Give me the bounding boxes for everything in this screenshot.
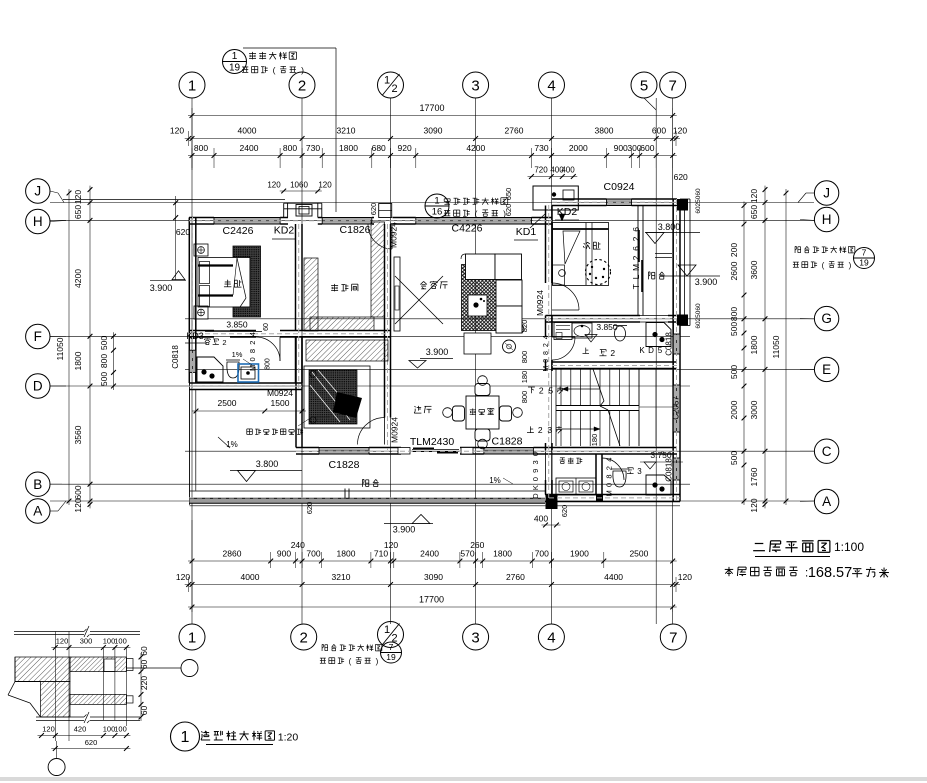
- svg-text:600: 600: [640, 143, 654, 153]
- svg-text:J: J: [34, 184, 41, 199]
- svg-text:120: 120: [42, 725, 55, 734]
- svg-text:400: 400: [561, 166, 575, 175]
- svg-text:3: 3: [547, 425, 552, 435]
- svg-text:5: 5: [658, 346, 663, 355]
- svg-text:60: 60: [695, 206, 702, 214]
- svg-text:2: 2: [298, 77, 306, 94]
- svg-text:KD2: KD2: [274, 225, 295, 237]
- svg-text:4: 4: [547, 629, 555, 646]
- svg-text:C0818: C0818: [665, 332, 674, 356]
- svg-text:1760: 1760: [749, 467, 759, 486]
- svg-text:900: 900: [277, 549, 291, 559]
- svg-text:2500: 2500: [629, 549, 648, 559]
- svg-text:2: 2: [539, 386, 544, 396]
- svg-text:180: 180: [520, 371, 529, 384]
- svg-text:2: 2: [391, 83, 397, 95]
- svg-text:3090: 3090: [424, 572, 443, 582]
- svg-text:120: 120: [176, 572, 190, 582]
- svg-text:M: M: [631, 264, 641, 271]
- svg-text:1800: 1800: [337, 549, 356, 559]
- svg-text:3.900: 3.900: [150, 283, 173, 293]
- svg-text:1800: 1800: [493, 549, 512, 559]
- svg-text:620: 620: [305, 502, 314, 515]
- svg-text:E: E: [822, 362, 831, 377]
- svg-text:3210: 3210: [337, 126, 356, 136]
- svg-text:300: 300: [80, 637, 93, 646]
- svg-text:D: D: [33, 379, 43, 394]
- svg-text:): ): [849, 261, 852, 270]
- svg-text:D: D: [531, 493, 540, 499]
- svg-text:H: H: [822, 212, 832, 227]
- svg-text:710: 710: [374, 549, 388, 559]
- svg-text:): ): [301, 65, 304, 75]
- svg-text:C1828: C1828: [492, 436, 523, 448]
- svg-text:19: 19: [386, 652, 396, 662]
- svg-text:): ): [503, 209, 506, 219]
- svg-text:2: 2: [610, 348, 615, 358]
- svg-text:3: 3: [471, 629, 479, 646]
- svg-text:1500: 1500: [271, 398, 290, 408]
- svg-text:570: 570: [460, 549, 474, 559]
- svg-text:250: 250: [695, 310, 702, 321]
- svg-text:120: 120: [267, 181, 281, 190]
- svg-text:11050: 11050: [771, 335, 781, 358]
- svg-text:2400: 2400: [420, 549, 439, 559]
- svg-text:260: 260: [470, 540, 484, 550]
- svg-text:800: 800: [729, 307, 739, 321]
- svg-text:1: 1: [188, 629, 196, 646]
- svg-text:0: 0: [604, 483, 613, 487]
- svg-text:240: 240: [291, 540, 305, 550]
- svg-text:620: 620: [176, 227, 190, 237]
- svg-text:1900: 1900: [570, 549, 589, 559]
- svg-text:3.800: 3.800: [256, 459, 279, 469]
- svg-text:420: 420: [74, 725, 87, 734]
- svg-text:3.850: 3.850: [596, 322, 618, 332]
- svg-text:7: 7: [669, 77, 677, 94]
- svg-text:700: 700: [535, 549, 549, 559]
- svg-text:2760: 2760: [506, 572, 525, 582]
- svg-text:17700: 17700: [419, 103, 444, 113]
- svg-text:400: 400: [534, 514, 548, 524]
- svg-text:2: 2: [538, 425, 543, 435]
- svg-text:(: (: [822, 261, 825, 270]
- svg-text:8: 8: [248, 349, 257, 353]
- svg-text:1: 1: [384, 75, 390, 87]
- svg-text:500: 500: [729, 451, 739, 465]
- svg-text:168.57: 168.57: [808, 565, 852, 581]
- svg-text:60: 60: [139, 646, 149, 656]
- svg-text:): ): [376, 657, 379, 666]
- svg-text:(: (: [349, 657, 352, 666]
- svg-text:4200: 4200: [73, 269, 83, 288]
- svg-text:M: M: [604, 490, 613, 496]
- svg-text:2: 2: [300, 629, 308, 646]
- svg-text:120: 120: [678, 572, 692, 582]
- svg-text:0: 0: [531, 477, 540, 481]
- svg-text:C1826: C1826: [340, 224, 371, 236]
- svg-text:M0924: M0924: [267, 388, 293, 398]
- svg-text:M: M: [248, 365, 257, 371]
- svg-text:60: 60: [695, 303, 702, 311]
- svg-text:2860: 2860: [223, 549, 242, 559]
- svg-text:500: 500: [99, 336, 109, 350]
- svg-text:17700: 17700: [419, 595, 444, 605]
- svg-text:2: 2: [543, 343, 550, 347]
- svg-text:2600: 2600: [729, 261, 739, 280]
- svg-text:120: 120: [318, 181, 332, 190]
- svg-text:3.850: 3.850: [226, 320, 248, 330]
- svg-text:3: 3: [471, 77, 479, 94]
- svg-text:120: 120: [170, 126, 184, 136]
- svg-text:0: 0: [531, 452, 540, 456]
- svg-text:7: 7: [389, 642, 394, 652]
- svg-text:19: 19: [859, 258, 869, 268]
- svg-text:800: 800: [99, 354, 109, 368]
- svg-text:650: 650: [749, 205, 759, 219]
- svg-text:A: A: [33, 504, 42, 519]
- svg-text:1: 1: [188, 77, 196, 94]
- svg-text:K: K: [639, 346, 645, 355]
- svg-text:220: 220: [139, 676, 149, 690]
- svg-text:730: 730: [306, 143, 320, 153]
- svg-text:2: 2: [604, 466, 613, 470]
- svg-text:4: 4: [547, 77, 555, 94]
- svg-text:6: 6: [631, 246, 641, 251]
- svg-text:720: 720: [534, 166, 548, 175]
- svg-text:100: 100: [114, 637, 127, 646]
- svg-text:M: M: [543, 366, 550, 372]
- svg-text:7: 7: [669, 629, 677, 646]
- svg-text:60: 60: [695, 188, 702, 196]
- svg-text:120: 120: [73, 190, 83, 204]
- svg-text:0: 0: [248, 357, 257, 361]
- svg-text:M0924: M0924: [389, 222, 399, 248]
- svg-text:1%: 1%: [232, 350, 243, 359]
- svg-text:120: 120: [749, 189, 759, 203]
- svg-text:120: 120: [73, 498, 83, 512]
- svg-text:T: T: [631, 284, 641, 289]
- svg-text:800: 800: [520, 351, 529, 364]
- svg-text:H: H: [33, 214, 43, 229]
- svg-text:120: 120: [673, 126, 687, 136]
- svg-text:KD3: KD3: [186, 331, 204, 341]
- svg-text:120: 120: [56, 637, 69, 646]
- svg-text:G: G: [821, 311, 832, 326]
- svg-text:3600: 3600: [749, 260, 759, 279]
- svg-text:1: 1: [232, 51, 238, 62]
- svg-text:11050: 11050: [55, 337, 65, 360]
- svg-text:C4226: C4226: [452, 223, 483, 235]
- svg-text:3.900: 3.900: [426, 347, 449, 357]
- svg-text:650: 650: [504, 188, 513, 201]
- svg-text:1:20: 1:20: [278, 732, 299, 744]
- svg-text:4200: 4200: [466, 143, 485, 153]
- svg-text:60: 60: [139, 706, 149, 716]
- svg-text:1: 1: [434, 196, 439, 207]
- svg-text:680: 680: [372, 143, 386, 153]
- svg-text:16: 16: [432, 207, 443, 218]
- svg-text:C: C: [822, 444, 832, 459]
- svg-text:C2057: C2057: [672, 396, 681, 420]
- svg-text:L: L: [631, 274, 641, 279]
- svg-text:1%: 1%: [226, 440, 238, 449]
- svg-text:1800: 1800: [339, 143, 358, 153]
- svg-text:4: 4: [543, 335, 550, 339]
- svg-text:500: 500: [729, 365, 739, 379]
- svg-text:4000: 4000: [241, 572, 260, 582]
- svg-text:3210: 3210: [332, 572, 351, 582]
- svg-text:M0924: M0924: [390, 417, 400, 443]
- svg-text:900: 900: [614, 143, 628, 153]
- svg-text:60: 60: [263, 323, 270, 331]
- svg-text:7: 7: [862, 248, 867, 258]
- svg-text:2400: 2400: [240, 143, 259, 153]
- svg-text:C2426: C2426: [223, 225, 254, 237]
- svg-text:3: 3: [637, 467, 642, 476]
- svg-text:19: 19: [229, 63, 241, 74]
- svg-text:9: 9: [531, 469, 540, 473]
- svg-text:3.900: 3.900: [695, 277, 718, 287]
- svg-text:500: 500: [729, 322, 739, 336]
- svg-text:2760: 2760: [505, 126, 524, 136]
- svg-text:B: B: [33, 477, 42, 492]
- svg-text:5: 5: [640, 77, 648, 94]
- svg-text:M0924: M0924: [535, 290, 545, 316]
- svg-text:4: 4: [604, 458, 613, 462]
- svg-text:1%: 1%: [489, 476, 501, 485]
- svg-text:700: 700: [306, 549, 320, 559]
- svg-text:6: 6: [631, 227, 641, 232]
- svg-text:3090: 3090: [424, 126, 443, 136]
- svg-text:F: F: [34, 329, 42, 344]
- svg-text:800: 800: [265, 358, 272, 370]
- svg-text:1:100: 1:100: [834, 540, 864, 554]
- svg-text:3.800: 3.800: [658, 222, 681, 232]
- svg-text:8: 8: [543, 351, 550, 355]
- svg-text:KD1: KD1: [516, 226, 537, 238]
- svg-text:1060: 1060: [290, 181, 308, 190]
- svg-text:650: 650: [73, 205, 83, 219]
- svg-text:120: 120: [384, 540, 398, 550]
- svg-text:1: 1: [181, 729, 190, 746]
- svg-text:2: 2: [248, 341, 257, 345]
- svg-text:1800: 1800: [749, 335, 759, 354]
- svg-text:180: 180: [590, 434, 599, 447]
- svg-text:120: 120: [749, 498, 759, 512]
- svg-text:800: 800: [283, 143, 297, 153]
- svg-text:3560: 3560: [73, 425, 83, 444]
- svg-text:5: 5: [548, 386, 553, 396]
- svg-text:730: 730: [534, 143, 548, 153]
- svg-text:D: D: [648, 346, 654, 355]
- svg-text:A: A: [822, 494, 831, 509]
- svg-text:600: 600: [73, 485, 83, 499]
- svg-text:2000: 2000: [729, 400, 739, 419]
- svg-text:(: (: [273, 65, 276, 75]
- svg-text:TLM2430: TLM2430: [410, 436, 455, 448]
- svg-text:250: 250: [695, 195, 702, 206]
- svg-text:2: 2: [631, 236, 641, 241]
- svg-text:800: 800: [194, 143, 208, 153]
- svg-text:(: (: [475, 209, 478, 219]
- svg-text:60: 60: [695, 321, 702, 329]
- svg-text:1800: 1800: [73, 351, 83, 370]
- svg-text:600: 600: [652, 126, 666, 136]
- svg-text:620: 620: [560, 505, 569, 518]
- svg-text:C0818: C0818: [665, 458, 674, 482]
- svg-text:2: 2: [222, 338, 226, 347]
- svg-text:620: 620: [85, 738, 98, 747]
- svg-text:4: 4: [248, 332, 257, 336]
- svg-text:800: 800: [520, 391, 529, 404]
- svg-text:3: 3: [531, 460, 540, 464]
- svg-text:620: 620: [674, 172, 688, 182]
- svg-text:2: 2: [631, 255, 641, 260]
- svg-text:C0924: C0924: [604, 181, 635, 193]
- svg-text:C1828: C1828: [329, 459, 360, 471]
- svg-text:100: 100: [114, 725, 127, 734]
- svg-text:500: 500: [99, 372, 109, 386]
- svg-text:2500: 2500: [218, 398, 237, 408]
- svg-text:3.900: 3.900: [393, 525, 416, 535]
- svg-text:8: 8: [604, 474, 613, 478]
- svg-text:K: K: [531, 485, 540, 490]
- svg-text:4400: 4400: [604, 572, 623, 582]
- svg-text:2000: 2000: [569, 143, 588, 153]
- svg-text:1: 1: [384, 624, 390, 636]
- svg-text:60: 60: [139, 660, 149, 670]
- svg-text:4000: 4000: [238, 126, 257, 136]
- svg-text:0: 0: [543, 359, 550, 363]
- svg-text:3000: 3000: [749, 400, 759, 419]
- svg-text:920: 920: [398, 143, 412, 153]
- svg-text:200: 200: [729, 243, 739, 257]
- svg-text:3800: 3800: [595, 126, 614, 136]
- svg-text:620: 620: [369, 203, 378, 216]
- svg-text:C0818: C0818: [171, 345, 180, 369]
- svg-text:J: J: [823, 186, 830, 201]
